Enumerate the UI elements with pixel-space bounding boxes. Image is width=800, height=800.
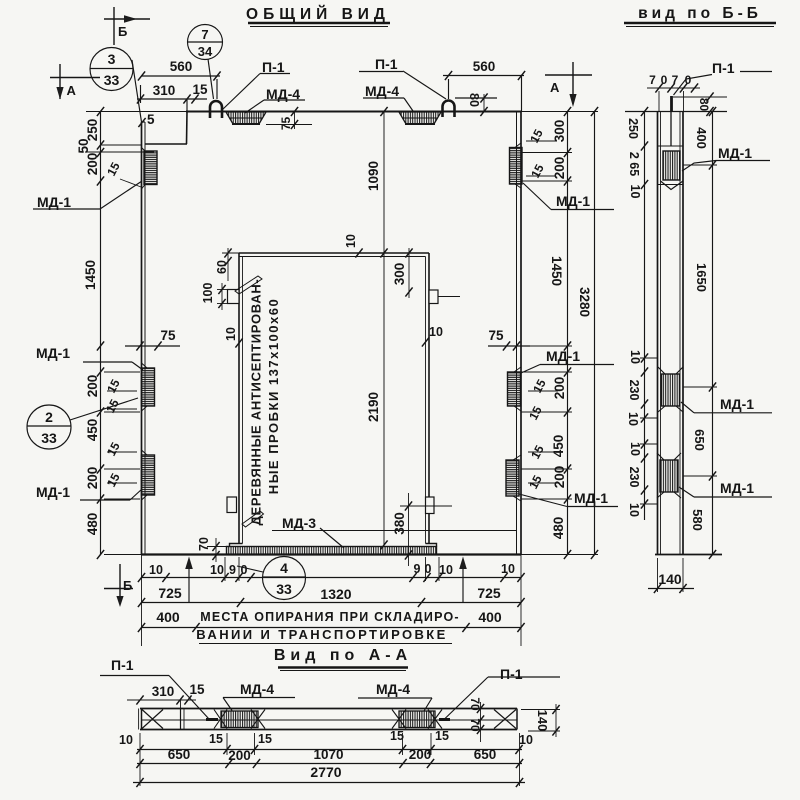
wooden plug tab upper-right bbox=[429, 290, 438, 304]
svg-text:15: 15 bbox=[390, 729, 404, 743]
svg-text:ОБЩИЙ ВИД: ОБЩИЙ ВИД bbox=[246, 5, 390, 23]
svg-text:15: 15 bbox=[527, 127, 546, 146]
callout circle 2/33 bbox=[27, 398, 138, 449]
Б-Б dim 80 bbox=[673, 92, 727, 116]
svg-text:4: 4 bbox=[280, 560, 288, 576]
svg-text:9: 9 bbox=[229, 563, 236, 577]
svg-text:15: 15 bbox=[104, 160, 123, 179]
svg-text:1450: 1450 bbox=[83, 260, 98, 290]
svg-text:1650: 1650 bbox=[694, 263, 709, 292]
svg-text:200: 200 bbox=[228, 748, 251, 763]
leader parallelogram mark 2 (plug note bottom) bbox=[242, 511, 264, 527]
Б-Б wood block МД-1 bottom bbox=[657, 453, 681, 498]
svg-text:МД-1: МД-1 bbox=[36, 345, 70, 361]
title: Вид по А-А bbox=[274, 647, 412, 664]
svg-text:80: 80 bbox=[697, 98, 711, 112]
svg-text:100: 100 bbox=[201, 283, 215, 304]
callout circle 3/33 bbox=[90, 48, 142, 123]
А-А wood pad МД-4 left bbox=[214, 710, 265, 729]
А-А label МД-4 left bbox=[223, 681, 295, 711]
svg-text:П-1: П-1 bbox=[500, 666, 523, 682]
label МД-1 left-middle bbox=[36, 345, 143, 370]
svg-text:650: 650 bbox=[474, 747, 497, 762]
svg-text:480: 480 bbox=[85, 513, 100, 536]
А-А internal split line bbox=[142, 719, 518, 721]
callout circle 4/33 bbox=[237, 557, 306, 600]
dim 1090 / 2190 vertical line bbox=[366, 107, 388, 550]
dim 560 left bbox=[138, 59, 221, 99]
svg-text:15: 15 bbox=[192, 82, 208, 97]
dim 5 (top-left lip) bbox=[138, 112, 155, 127]
svg-text:310: 310 bbox=[152, 684, 175, 699]
Б-Б label МД-1 bottom bbox=[679, 480, 772, 497]
svg-text:15: 15 bbox=[104, 377, 123, 396]
bottom dim row 1 (10/90 pairs) bbox=[138, 555, 525, 647]
dim 310 / 15 (top-left) bbox=[137, 82, 208, 112]
svg-text:250: 250 bbox=[85, 119, 100, 142]
svg-text:1090: 1090 bbox=[366, 161, 381, 191]
support point arrow right bbox=[459, 557, 467, 603]
svg-text:ДЕРЕВЯННЫЕ АНТИСЕПТИРОВАН-: ДЕРЕВЯННЫЕ АНТИСЕПТИРОВАН- bbox=[249, 279, 264, 526]
svg-text:15: 15 bbox=[103, 397, 122, 416]
svg-text:725: 725 bbox=[477, 585, 501, 601]
svg-text:33: 33 bbox=[276, 581, 292, 597]
dim 70 (МД-3 height) bbox=[197, 537, 227, 562]
Б-Б internal facing line bbox=[670, 112, 672, 147]
wood pad МД-4 top-left (trapezoid hatched) bbox=[226, 112, 266, 124]
svg-text:75: 75 bbox=[488, 328, 504, 343]
svg-text:230: 230 bbox=[627, 380, 641, 401]
svg-text:МД-4: МД-4 bbox=[365, 83, 399, 99]
svg-text:1320: 1320 bbox=[320, 586, 351, 602]
svg-text:33: 33 bbox=[41, 430, 57, 446]
svg-text:480: 480 bbox=[551, 517, 566, 540]
svg-text:15: 15 bbox=[104, 440, 123, 459]
svg-text:МЕСТА ОПИРАНИЯ ПРИ СКЛАДИРО-: МЕСТА ОПИРАНИЯ ПРИ СКЛАДИРО- bbox=[200, 610, 460, 624]
svg-text:300: 300 bbox=[392, 263, 407, 286]
svg-text:200: 200 bbox=[552, 377, 567, 400]
svg-text:80: 80 bbox=[467, 93, 481, 107]
lifting loop П-1 left bbox=[210, 101, 222, 118]
А-А label П-1 right bbox=[445, 666, 561, 719]
svg-text:15: 15 bbox=[209, 732, 223, 746]
dim 380 (lower-right plug) bbox=[392, 493, 452, 566]
wood pad МД-4 top-right (trapezoid hatched) bbox=[399, 112, 441, 124]
dim 560 right bbox=[443, 59, 525, 112]
svg-text:725: 725 bbox=[158, 585, 182, 601]
А-А left end break symbol bbox=[142, 710, 163, 729]
svg-text:10: 10 bbox=[149, 563, 163, 577]
svg-text:560: 560 bbox=[170, 59, 193, 74]
wood block МД-1 left-bottom bbox=[142, 450, 155, 500]
Б-Б dim 7-0-7-0 bbox=[647, 73, 700, 112]
svg-text:200: 200 bbox=[85, 467, 100, 490]
callout circle 7/34 bbox=[188, 25, 223, 100]
svg-text:10: 10 bbox=[627, 503, 641, 517]
svg-text:200: 200 bbox=[85, 375, 100, 398]
svg-text:15: 15 bbox=[526, 404, 545, 423]
svg-text:15: 15 bbox=[189, 682, 205, 697]
wood block МД-1 left-top bbox=[142, 148, 158, 190]
svg-text:1070: 1070 bbox=[313, 747, 343, 762]
А-А right end break symbol bbox=[494, 710, 516, 729]
svg-text:15: 15 bbox=[526, 473, 545, 492]
svg-text:250: 250 bbox=[626, 118, 640, 139]
label П-1 top-left bbox=[222, 59, 290, 110]
svg-text:200: 200 bbox=[85, 153, 100, 176]
dim 75 (left, y346) bbox=[125, 328, 180, 351]
leader parallelogram mark (plug note) bbox=[235, 276, 262, 294]
А-А inner layer edge (double) bbox=[181, 709, 185, 730]
svg-text:3: 3 bbox=[108, 51, 116, 67]
svg-text:580: 580 bbox=[690, 509, 705, 531]
svg-text:Б: Б bbox=[123, 578, 132, 593]
svg-text:0: 0 bbox=[425, 562, 432, 576]
panel left edge (double line) bbox=[141, 122, 143, 555]
dim 100 (upper-left plug) bbox=[201, 283, 228, 310]
svg-text:МД-1: МД-1 bbox=[718, 145, 752, 161]
left dimension column bbox=[76, 107, 154, 559]
svg-text:15: 15 bbox=[528, 162, 547, 181]
svg-text:10: 10 bbox=[626, 412, 640, 426]
right dimension column 1 bbox=[488, 107, 572, 559]
svg-text:Б: Б bbox=[118, 24, 127, 39]
inner opening rectangle (double lines) bbox=[230, 253, 437, 547]
А-А wood pad МД-4 right bbox=[392, 710, 442, 729]
svg-text:7: 7 bbox=[672, 73, 679, 87]
svg-text:380: 380 bbox=[392, 512, 407, 535]
panel top edge bbox=[86, 111, 187, 113]
label МД-4 top-right bbox=[363, 83, 413, 111]
Б-Б label П-1 bbox=[674, 60, 773, 95]
svg-text:МД-3: МД-3 bbox=[282, 515, 316, 531]
label МД-1 left-top bbox=[33, 181, 142, 210]
dim 10 (inner right) bbox=[422, 325, 443, 347]
panel bottom edge bbox=[142, 553, 522, 555]
svg-text:0: 0 bbox=[241, 563, 248, 577]
svg-text:230: 230 bbox=[627, 467, 641, 488]
svg-text:200: 200 bbox=[552, 157, 567, 180]
svg-text:50: 50 bbox=[76, 138, 91, 153]
wooden plug tab upper-left bbox=[228, 290, 240, 304]
label МД-4 top-left bbox=[245, 86, 305, 113]
svg-text:10: 10 bbox=[439, 563, 453, 577]
title: вид по Б-Б bbox=[638, 5, 762, 22]
svg-text:310: 310 bbox=[153, 83, 176, 98]
svg-text:А: А bbox=[67, 83, 77, 98]
svg-text:2190: 2190 bbox=[366, 392, 381, 422]
svg-text:МД-1: МД-1 bbox=[36, 484, 70, 500]
svg-text:3280: 3280 bbox=[577, 287, 592, 317]
bottom sill МД-3 (hatched strip) bbox=[227, 547, 437, 555]
svg-text:МД-4: МД-4 bbox=[376, 681, 410, 697]
wood block МД-1 right-bottom bbox=[506, 455, 521, 501]
dim 10 (inner left) bbox=[224, 327, 243, 348]
svg-text:140: 140 bbox=[535, 710, 550, 732]
section mark А (top-left) bbox=[50, 64, 100, 100]
А-А lifting loop П-1 left (edge-on bar) bbox=[206, 718, 218, 721]
Б-Б dim 140 (bottom) bbox=[648, 558, 694, 593]
svg-text:ВАНИИ И ТРАНСПОРТИРОВКЕ: ВАНИИ И ТРАНСПОРТИРОВКЕ bbox=[196, 627, 447, 642]
svg-text:7: 7 bbox=[201, 27, 208, 42]
svg-text:650: 650 bbox=[168, 747, 191, 762]
wooden plug tab lower-right bbox=[426, 497, 435, 514]
svg-text:450: 450 bbox=[551, 435, 566, 458]
svg-text:15: 15 bbox=[528, 443, 547, 462]
svg-text:НЫЕ ПРОБКИ 137х100х60: НЫЕ ПРОБКИ 137х100х60 bbox=[266, 298, 281, 494]
svg-text:10: 10 bbox=[119, 733, 133, 747]
svg-text:400: 400 bbox=[478, 609, 502, 625]
А-А dim 310/15 bbox=[127, 682, 205, 709]
svg-text:П-1: П-1 bbox=[262, 59, 285, 75]
Б-Б label МД-1 top bbox=[682, 145, 770, 171]
svg-text:П-1: П-1 bbox=[712, 60, 735, 76]
dim 75 (right, y346) bbox=[488, 328, 530, 351]
bottom dim row 3 (400 / note / 400) bbox=[138, 609, 525, 632]
svg-text:МД-1: МД-1 bbox=[37, 194, 71, 210]
svg-text:А: А bbox=[550, 80, 560, 95]
Б-Б strip outline bbox=[625, 112, 727, 555]
label МД-1 right-middle bbox=[521, 348, 614, 373]
svg-text:10: 10 bbox=[628, 185, 642, 199]
wood block МД-1 left-middle bbox=[142, 363, 155, 411]
bottom dim row 2 (725/1320/725) bbox=[138, 585, 525, 607]
А-А dim row 2 (650/200/1070/200/650) bbox=[136, 747, 523, 768]
label МД-1 right-bottom bbox=[519, 490, 618, 507]
svg-text:П-1: П-1 bbox=[375, 56, 398, 72]
svg-text:вид по Б-Б: вид по Б-Б bbox=[638, 5, 762, 22]
svg-text:15: 15 bbox=[104, 471, 123, 490]
svg-text:10: 10 bbox=[429, 325, 443, 339]
svg-text:МД-1: МД-1 bbox=[546, 348, 580, 364]
svg-text:2770: 2770 bbox=[310, 764, 341, 780]
left small 15 dims bbox=[103, 160, 141, 490]
note: места опирания bbox=[196, 610, 459, 642]
section mark А (top-right) bbox=[545, 62, 592, 107]
svg-text:70: 70 bbox=[468, 718, 482, 732]
right small 15 dims bbox=[526, 127, 558, 492]
svg-text:0: 0 bbox=[661, 73, 668, 87]
svg-text:200: 200 bbox=[409, 747, 432, 762]
rotated note: Деревянные антисептированные пробки bbox=[249, 279, 282, 526]
svg-text:МД-1: МД-1 bbox=[574, 490, 608, 506]
Б-Б right dimension column bbox=[683, 107, 717, 559]
svg-text:300: 300 bbox=[552, 120, 567, 143]
section mark Б (top) bbox=[104, 7, 150, 45]
label МД-1 right-top bbox=[523, 183, 614, 210]
Б-Б wood block МД-1 top bbox=[661, 151, 684, 190]
Б-Б left dimension column bbox=[626, 107, 658, 520]
svg-text:10: 10 bbox=[501, 562, 515, 576]
svg-text:10: 10 bbox=[519, 733, 533, 747]
dim 75 (МД-4 pad height) bbox=[266, 107, 312, 130]
svg-text:650: 650 bbox=[692, 429, 707, 451]
svg-text:560: 560 bbox=[473, 59, 496, 74]
dim 300 (upper-right plug) bbox=[392, 248, 460, 298]
svg-text:10: 10 bbox=[628, 442, 642, 456]
title: ОБЩИЙ ВИД bbox=[246, 5, 390, 23]
svg-text:34: 34 bbox=[198, 44, 213, 59]
svg-text:9: 9 bbox=[414, 562, 421, 576]
А-А dim row 3 (2770) bbox=[133, 733, 525, 787]
svg-text:МД-1: МД-1 bbox=[720, 480, 754, 496]
svg-text:МД-1: МД-1 bbox=[556, 193, 590, 209]
svg-text:2 65: 2 65 bbox=[627, 152, 641, 176]
svg-text:10: 10 bbox=[210, 563, 224, 577]
А-А lifting loop П-1 right (edge-on bar) bbox=[439, 718, 450, 721]
svg-text:140: 140 bbox=[658, 571, 682, 587]
svg-text:15: 15 bbox=[435, 729, 449, 743]
svg-text:5: 5 bbox=[147, 112, 155, 127]
А-А label МД-4 right bbox=[358, 681, 432, 711]
А-А strip outline bbox=[139, 709, 517, 730]
svg-text:10: 10 bbox=[344, 234, 358, 248]
svg-text:70: 70 bbox=[468, 697, 482, 711]
svg-text:75: 75 bbox=[279, 117, 293, 131]
svg-text:15: 15 bbox=[530, 377, 549, 396]
Б-Б label МД-1 middle bbox=[681, 396, 772, 413]
А-А dim 70/70 (thickness split) bbox=[468, 697, 484, 742]
Б-Б lifting loop П-1 (edge-on) bbox=[670, 96, 673, 112]
svg-text:400: 400 bbox=[694, 127, 709, 149]
panel right edge (double line) bbox=[516, 112, 518, 555]
section mark Б (bottom-left) bbox=[104, 564, 133, 607]
lifting loop П-1 right bbox=[443, 101, 455, 118]
svg-text:2: 2 bbox=[45, 409, 53, 425]
wooden plug tab lower-left bbox=[227, 497, 237, 513]
svg-text:10: 10 bbox=[628, 350, 642, 364]
svg-text:МД-1: МД-1 bbox=[720, 396, 754, 412]
support point arrow left bbox=[185, 557, 193, 603]
svg-text:60: 60 bbox=[215, 260, 229, 274]
Б-Б wood block МД-1 middle bbox=[658, 367, 683, 412]
wood block МД-1 right-middle bbox=[508, 367, 522, 411]
dim 10 (inner top) bbox=[344, 234, 363, 258]
А-А label П-1 left bbox=[100, 657, 209, 719]
svg-text:Вид по А-А: Вид по А-А bbox=[274, 647, 412, 664]
label МД-3 bbox=[272, 515, 517, 548]
А-А dim 140 (right) bbox=[521, 704, 560, 737]
panel top-left step bbox=[186, 112, 189, 145]
svg-text:200: 200 bbox=[552, 466, 567, 489]
svg-text:75: 75 bbox=[160, 328, 176, 343]
dim 80 (top-right) bbox=[455, 93, 497, 116]
right dimension column 2 (3280) bbox=[577, 107, 598, 559]
note underline bbox=[199, 643, 452, 645]
А-А dim row 1 (10,15,15,15,15,10) bbox=[119, 729, 533, 755]
svg-text:15: 15 bbox=[258, 732, 272, 746]
svg-text:П-1: П-1 bbox=[111, 657, 134, 673]
svg-text:400: 400 bbox=[156, 609, 180, 625]
wood block МД-1 right-top bbox=[510, 143, 523, 188]
svg-text:1450: 1450 bbox=[549, 256, 564, 286]
label П-1 top-right bbox=[359, 56, 446, 99]
svg-text:МД-4: МД-4 bbox=[240, 681, 274, 697]
dim 60 (inner top-left) bbox=[215, 248, 239, 281]
svg-text:10: 10 bbox=[224, 327, 238, 341]
svg-text:70: 70 bbox=[197, 537, 211, 551]
svg-text:450: 450 bbox=[85, 419, 100, 442]
svg-text:33: 33 bbox=[104, 72, 120, 88]
svg-text:7: 7 bbox=[649, 73, 656, 87]
label МД-1 left-bottom bbox=[36, 484, 142, 500]
